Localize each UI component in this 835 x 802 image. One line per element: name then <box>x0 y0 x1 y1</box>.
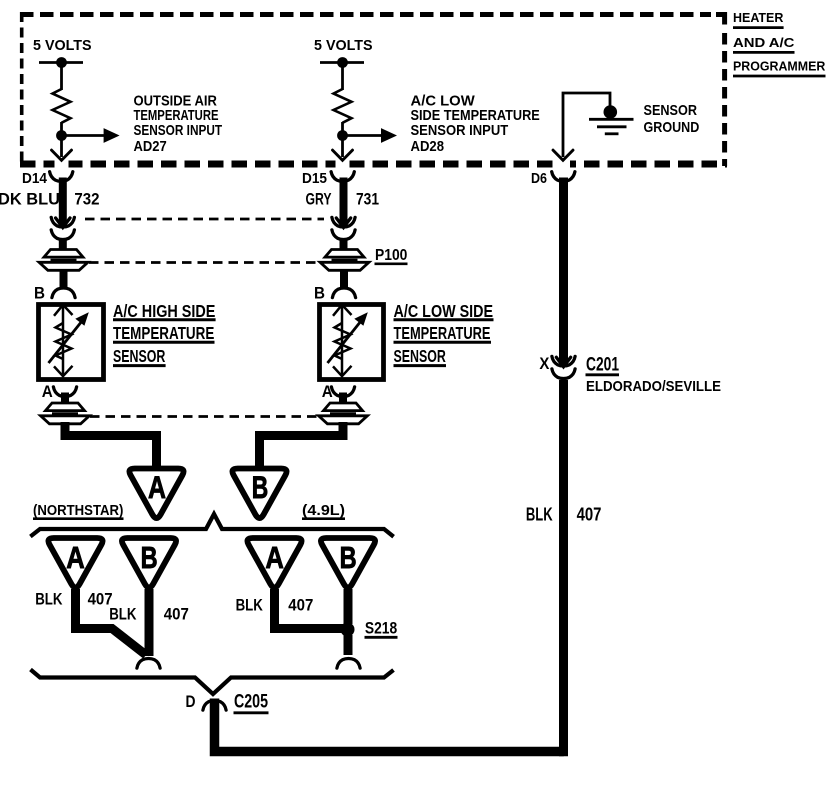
resistor R (middle pull-up) <box>334 89 352 123</box>
5V rail bar (left) <box>39 61 83 64</box>
svg-text:S218: S218 <box>365 620 397 638</box>
label (NORTHSTAR) <box>33 503 124 519</box>
inline connector lower half (731) <box>332 230 355 251</box>
svg-text:BLK: BLK <box>109 605 136 623</box>
down arrow into pin D14 <box>52 150 72 160</box>
svg-text:D6: D6 <box>531 171 547 187</box>
lower split bracket <box>31 670 394 695</box>
svg-text:DK BLU: DK BLU <box>0 190 60 209</box>
ground symbol bars <box>589 119 634 134</box>
svg-text:(NORTHSTAR): (NORTHSTAR) <box>33 503 124 519</box>
sensor box (A/C high side) <box>39 305 104 380</box>
dashed connector tie line (row 1) <box>85 218 324 221</box>
svg-text:SENSOR INPUT: SENSOR INPUT <box>134 122 223 139</box>
svg-text:AD28: AD28 <box>411 138 445 155</box>
pin B cup (left sensor) <box>52 288 75 298</box>
5V node dot (middle) <box>337 57 348 68</box>
svg-text:TEMPERATURE: TEMPERATURE <box>113 323 214 343</box>
upper split bracket <box>30 514 393 537</box>
wire D6 to C201 <box>559 178 568 366</box>
svg-text:SENSOR: SENSOR <box>644 102 698 119</box>
sensor ground terminal dot <box>604 105 618 119</box>
down arrow into pin D15 <box>333 150 353 160</box>
svg-text:407: 407 <box>164 605 189 623</box>
down arrow into pin D6 <box>553 150 573 160</box>
label SENSOR GROUND <box>644 102 700 136</box>
lower saucer middle <box>319 403 368 424</box>
wire sensor A to saucer (middle) <box>339 393 347 405</box>
svg-text:(4.9L): (4.9L) <box>302 503 345 519</box>
node dot AD28 (middle) <box>337 130 348 141</box>
svg-text:TEMPERATURE: TEMPERATURE <box>394 323 491 343</box>
svg-text:5 VOLTS: 5 VOLTS <box>314 37 373 54</box>
pin A cup (left sensor) <box>53 387 76 397</box>
svg-text:B: B <box>34 285 45 303</box>
svg-text:B: B <box>252 469 268 505</box>
sensor box (A/C low side) <box>320 305 384 380</box>
resistor R (left pull-up) <box>53 89 71 123</box>
label S218 <box>365 620 398 638</box>
P100 saucer middle <box>320 250 369 271</box>
pin B cup (middle sensor) <box>332 288 355 298</box>
wire 5V to resistor (left) <box>60 63 63 91</box>
svg-text:SENSOR: SENSOR <box>113 346 166 366</box>
wire resistor to node (middle) <box>341 122 344 157</box>
wire saucer to sensor B (left) <box>60 269 68 288</box>
svg-text:P100: P100 <box>375 247 407 264</box>
svg-text:GRY: GRY <box>306 190 332 209</box>
wire saucer to triangle A <box>65 422 157 467</box>
connector triangle B (northstar) <box>122 538 176 588</box>
wire node to right arrow (left) <box>62 134 106 137</box>
wire saucer to triangle B <box>260 422 344 467</box>
ground wire C205 to right wire <box>215 699 564 752</box>
dashed lower tie line <box>90 415 319 418</box>
svg-text:B: B <box>141 540 158 575</box>
wire sensor A to saucer (left) <box>61 393 69 405</box>
sensor ground wire <box>563 93 610 157</box>
pin D15 cup <box>331 172 354 182</box>
label P100 <box>375 247 408 264</box>
node dot AD27 (left) <box>56 130 67 141</box>
pin D cup (C205) <box>203 700 226 710</box>
svg-text:A/C LOW SIDE: A/C LOW SIDE <box>394 301 494 321</box>
wire 4.9L A to splice <box>275 589 344 629</box>
northstar junction cup <box>137 658 160 668</box>
svg-text:A: A <box>265 540 284 575</box>
svg-text:D: D <box>186 693 196 711</box>
module box left dashed border <box>20 12 24 162</box>
svg-text:SENSOR INPUT: SENSOR INPUT <box>411 122 509 139</box>
wire DK BLU 732 <box>59 178 67 226</box>
svg-text:C201: C201 <box>586 355 619 376</box>
connector triangle A (row 1) <box>129 469 183 519</box>
label A/C LOW SIDE TEMPERATURE SENSOR <box>394 301 494 366</box>
svg-text:D15: D15 <box>302 171 327 187</box>
svg-text:407: 407 <box>577 505 602 525</box>
module box right dashed border <box>722 33 727 166</box>
5V rail bar (middle) <box>320 61 364 64</box>
label OUTSIDE AIR TEMPERATURE SENSOR INPUT AD27 <box>134 93 223 155</box>
connector triangle B (4.9L) <box>321 538 375 588</box>
svg-text:X: X <box>539 355 549 373</box>
label A/C LOW SIDE TEMPERATURE SENSOR INPUT AD28 <box>411 93 540 155</box>
svg-text:A/C HIGH SIDE: A/C HIGH SIDE <box>113 301 216 321</box>
thermistor element (left sensor) <box>49 305 89 376</box>
connector triangle A (northstar) <box>48 538 102 588</box>
wire GRY 731 <box>340 178 348 226</box>
wire saucer to sensor B (middle) <box>340 269 348 288</box>
label C201 <box>586 355 620 376</box>
wire resistor to node (left) <box>60 122 63 157</box>
connector triangle B (row 1) <box>232 469 286 519</box>
wire 4.9L B to splice <box>344 589 353 624</box>
wire node to right arrow (middle) <box>343 134 383 137</box>
arrow to A/C LOW SIDE TEMPERATURE SENSOR INPUT <box>381 128 397 143</box>
svg-text:A: A <box>148 469 166 505</box>
module box top-right corner dash <box>716 15 725 25</box>
C201 connector lower half <box>552 369 575 379</box>
pin D14 cup <box>50 172 73 182</box>
svg-text:C205: C205 <box>234 692 268 713</box>
label C205 <box>234 692 269 713</box>
svg-text:D14: D14 <box>22 171 47 187</box>
module box top dashed border <box>20 12 711 17</box>
pin D6 cup <box>552 172 575 182</box>
svg-text:GROUND: GROUND <box>644 119 700 136</box>
dashed P100 tie line <box>89 261 319 264</box>
svg-text:731: 731 <box>356 190 379 209</box>
thermistor element (middle sensor) <box>328 305 368 376</box>
connector triangle A (4.9L) <box>247 538 301 588</box>
svg-text:A: A <box>66 540 85 575</box>
svg-text:407: 407 <box>288 597 313 615</box>
arrow to OUTSIDE AIR TEMPERATURE SENSOR INPUT <box>104 128 120 143</box>
svg-text:732: 732 <box>74 190 99 209</box>
inline connector upper half (731) <box>332 217 355 227</box>
wire northstar A to junction <box>76 589 147 655</box>
svg-text:ELDORADO/SEVILLE: ELDORADO/SEVILLE <box>586 378 721 395</box>
svg-text:5 VOLTS: 5 VOLTS <box>33 37 92 54</box>
inline connector lower half (732) <box>51 230 74 251</box>
svg-text:AND A/C: AND A/C <box>733 35 795 50</box>
svg-text:B: B <box>314 285 325 303</box>
svg-text:BLK: BLK <box>526 505 553 525</box>
module box bottom dashed border <box>20 161 727 168</box>
wire northstar B to junction <box>145 589 154 656</box>
wire 5V to resistor (middle) <box>341 63 344 91</box>
wire splice to cup <box>344 635 353 655</box>
module name label: HEATER AND A/C PROGRAMMER <box>733 10 826 76</box>
border gaps at pin exits <box>55 160 571 169</box>
svg-text:AD27: AD27 <box>134 138 167 155</box>
svg-text:B: B <box>340 540 357 575</box>
pin A cup (middle sensor) <box>331 387 354 397</box>
5V node dot (left) <box>56 57 67 68</box>
C201 connector upper half <box>552 356 575 366</box>
svg-text:A: A <box>42 383 53 401</box>
4.9L junction cup <box>337 658 360 668</box>
wire C201 to bottom corner <box>559 380 568 756</box>
label (4.9L) <box>302 503 345 519</box>
lower saucer left <box>41 403 90 424</box>
svg-text:SENSOR: SENSOR <box>394 346 447 366</box>
svg-text:BLK: BLK <box>35 591 62 609</box>
splice S218 dot <box>341 623 355 637</box>
P100 saucer left <box>39 250 88 271</box>
svg-text:BLK: BLK <box>236 597 263 615</box>
svg-text:HEATER: HEATER <box>733 10 784 25</box>
inline connector upper half (732) <box>51 217 74 227</box>
svg-text:PROGRAMMER: PROGRAMMER <box>733 58 826 73</box>
label A/C HIGH SIDE TEMPERATURE SENSOR <box>113 301 216 366</box>
